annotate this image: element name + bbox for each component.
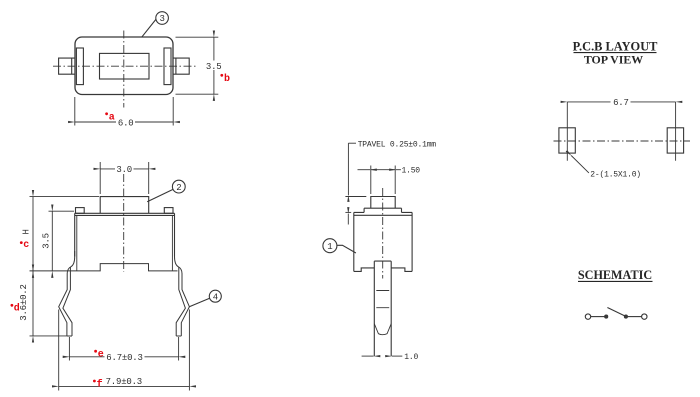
side view vertical centerline bbox=[382, 188, 384, 279]
svg-text:3.0: 3.0 bbox=[116, 165, 132, 175]
balloon circle 3 bbox=[156, 12, 169, 25]
side body right wall bbox=[411, 212, 413, 271]
right foot bottom bbox=[176, 335, 181, 337]
center actuator rectangle bbox=[100, 53, 150, 79]
balloon 1 leader bbox=[337, 245, 356, 253]
dim 6.0 extension lines bbox=[75, 97, 173, 126]
svg-text:3.6±0.2: 3.6±0.2 bbox=[19, 284, 29, 320]
svg-text:H: H bbox=[21, 229, 31, 234]
title underline bbox=[574, 52, 657, 54]
schematic left contact dot bbox=[605, 315, 608, 318]
dim 7.9 extension lines bbox=[59, 310, 190, 391]
pin taper tip bbox=[374, 324, 391, 335]
right leg inner line bbox=[176, 267, 185, 336]
horizontal centerline bbox=[53, 65, 196, 67]
side body left wall bbox=[353, 212, 355, 271]
switch body outline (top view) bbox=[75, 37, 173, 95]
right inner contact plate bbox=[164, 48, 171, 85]
schematic right contact dot bbox=[624, 315, 627, 318]
dim 3.0 extension lines bbox=[100, 162, 149, 194]
red mark *f bbox=[93, 380, 96, 383]
schematic left terminal bbox=[585, 314, 590, 319]
pcb dim 6.7 line with arrows bbox=[567, 101, 675, 103]
left inner contact plate bbox=[76, 48, 83, 85]
dim 3.5 line with arrows bbox=[213, 37, 215, 94]
balloon 3 leader bbox=[142, 20, 156, 37]
svg-text:2-(1.5X1.0): 2-(1.5X1.0) bbox=[590, 171, 641, 180]
pin crimp ticks bbox=[376, 291, 389, 308]
svg-text:a: a bbox=[109, 113, 115, 124]
body inner wall lines bbox=[77, 215, 173, 271]
svg-text:6.7±0.3: 6.7±0.3 bbox=[106, 353, 142, 363]
right pin (top view) bbox=[173, 58, 189, 74]
side body bottom with corner notches bbox=[354, 268, 412, 272]
dim 3.5 extension lines bbox=[176, 37, 219, 94]
svg-text:3: 3 bbox=[159, 14, 164, 24]
svg-text:TOP VIEW: TOP VIEW bbox=[584, 53, 643, 67]
balloon circle 2 bbox=[172, 180, 185, 193]
schematic right terminal bbox=[642, 314, 647, 319]
svg-text:3.5: 3.5 bbox=[42, 233, 52, 249]
body top lid lines bbox=[75, 213, 175, 215]
red mark *d bbox=[11, 304, 14, 307]
svg-text:1.50: 1.50 bbox=[402, 167, 421, 176]
red mark *c bbox=[20, 241, 23, 244]
side button bbox=[371, 197, 395, 209]
dim 3.6 line with arrows bbox=[32, 271, 34, 336]
body bottom edge with center recess bbox=[30, 264, 178, 271]
schematic left wire bbox=[591, 316, 605, 318]
dim 3.6 bottom extension line bbox=[30, 335, 73, 337]
travel down arrow bbox=[347, 143, 349, 195]
push button (front view) bbox=[100, 197, 149, 214]
svg-text:c: c bbox=[23, 240, 29, 251]
dim H top extension line bbox=[30, 196, 100, 198]
pcb pad centerlines vertical bbox=[567, 102, 675, 161]
svg-text:6.7: 6.7 bbox=[613, 98, 629, 108]
svg-text:TPAVEL 0.25±0.1mm: TPAVEL 0.25±0.1mm bbox=[358, 140, 437, 149]
schematic right wire bbox=[627, 316, 641, 318]
svg-text:1.0: 1.0 bbox=[404, 353, 418, 362]
svg-text:P.C.B LAYOUT: P.C.B LAYOUT bbox=[573, 39, 659, 53]
travel tick at pressed level bbox=[345, 211, 351, 213]
dim 7.9 line with arrows bbox=[59, 385, 190, 387]
dim H line with arrows bbox=[32, 197, 34, 272]
dim 3.0 line with arrows bbox=[100, 168, 149, 170]
side body top section bbox=[364, 208, 401, 212]
svg-text:3.5: 3.5 bbox=[206, 62, 222, 72]
schematic underline bbox=[578, 280, 653, 282]
left leg outer line bbox=[59, 251, 75, 336]
svg-text:7.9±0.3: 7.9±0.3 bbox=[106, 377, 142, 387]
left leg inner line bbox=[63, 267, 72, 336]
center pin (side view) bbox=[374, 261, 391, 356]
dim 3.5 extension line bbox=[49, 210, 75, 212]
svg-text:SCHEMATIC: SCHEMATIC bbox=[578, 268, 652, 282]
left pin (top view) bbox=[59, 58, 75, 74]
dim 1.0 outside arrows bbox=[362, 355, 374, 357]
travel up arrow bbox=[347, 214, 349, 225]
dim 1.50 line and outside arrows bbox=[371, 169, 395, 171]
body right wall bbox=[174, 213, 176, 256]
svg-text:b: b bbox=[224, 73, 230, 85]
red mark *b bbox=[220, 74, 223, 77]
balloon circle 1 bbox=[323, 239, 337, 253]
pcb horizontal centerline bbox=[554, 140, 691, 142]
travel reference line at button top bbox=[345, 196, 366, 198]
dim 6.7 line with arrows bbox=[69, 356, 178, 358]
pcb right pad bbox=[667, 128, 683, 153]
svg-text:d: d bbox=[14, 302, 20, 314]
pcb left pad bbox=[559, 128, 575, 153]
svg-text:4: 4 bbox=[213, 292, 218, 302]
body left wall bbox=[74, 213, 76, 256]
schematic lever bbox=[607, 308, 625, 317]
svg-text:f: f bbox=[97, 378, 103, 390]
svg-text:2: 2 bbox=[176, 183, 181, 193]
red mark *a bbox=[105, 112, 108, 115]
dim 6.7 extension lines bbox=[69, 337, 178, 361]
balloon 4 leader bbox=[189, 298, 209, 307]
left top boss bbox=[76, 208, 85, 214]
svg-text:1: 1 bbox=[327, 242, 332, 252]
vertical centerline bbox=[123, 31, 125, 108]
side body shoulders bbox=[354, 212, 412, 215]
svg-text:6.0: 6.0 bbox=[118, 118, 134, 128]
balloon 2 leader bbox=[147, 189, 173, 201]
dim 3.5 (front) line with arrows bbox=[51, 211, 53, 271]
dim 1.50 extension lines bbox=[371, 166, 395, 195]
svg-text:e: e bbox=[98, 350, 104, 361]
left foot bottom bbox=[67, 335, 72, 337]
balloon circle 4 bbox=[209, 290, 221, 302]
red mark *e bbox=[94, 350, 97, 353]
right leg outer line bbox=[175, 251, 190, 336]
dim 6.0 line with arrows bbox=[75, 121, 173, 123]
travel label bracket bbox=[348, 142, 356, 144]
right top boss bbox=[164, 208, 173, 214]
pcb pad size leader bbox=[571, 156, 589, 173]
front view vertical centerline bbox=[123, 174, 125, 272]
